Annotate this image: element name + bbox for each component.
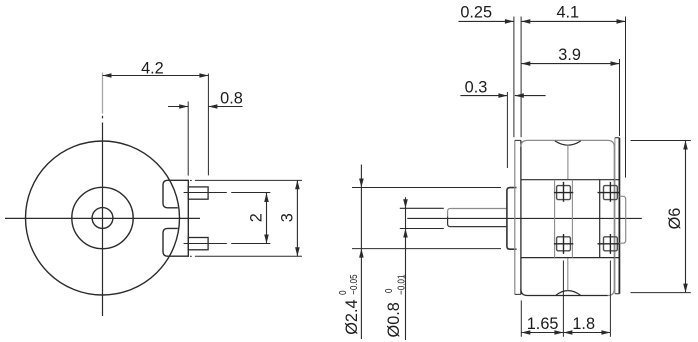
svg-text:4.1: 4.1 xyxy=(556,3,579,21)
svg-text:Ø2.4: Ø2.4 xyxy=(343,299,361,334)
svg-text:0.3: 0.3 xyxy=(465,78,488,96)
svg-text:1.8: 1.8 xyxy=(572,315,595,333)
svg-text:0: 0 xyxy=(337,290,348,294)
svg-text:3.9: 3.9 xyxy=(558,46,581,64)
svg-text:0.8: 0.8 xyxy=(220,90,243,108)
svg-text:1.65: 1.65 xyxy=(527,315,559,333)
svg-text:4.2: 4.2 xyxy=(141,60,164,78)
svg-text:Ø0.8: Ø0.8 xyxy=(385,302,403,337)
svg-text:2: 2 xyxy=(247,213,265,222)
svg-text:Ø6: Ø6 xyxy=(666,208,684,230)
svg-text:−0.05: −0.05 xyxy=(348,274,359,294)
svg-text:3: 3 xyxy=(278,213,296,222)
svg-text:0.25: 0.25 xyxy=(460,3,492,21)
svg-text:0: 0 xyxy=(383,289,394,293)
svg-text:−0.01: −0.01 xyxy=(396,275,407,295)
